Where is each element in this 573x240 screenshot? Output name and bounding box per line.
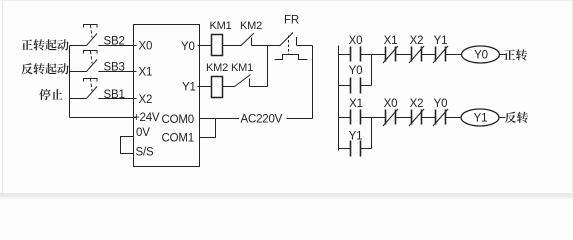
label 停止 (39, 89, 62, 100)
ladder left rail (338, 46, 340, 151)
svg-text:Y0: Y0 (349, 65, 363, 77)
svg-text:S/S: S/S (136, 146, 154, 158)
svg-text:Y1: Y1 (182, 82, 196, 94)
wire (396, 54, 412, 56)
wire (223, 86, 235, 88)
label 正转起动 (21, 39, 68, 50)
wire (422, 54, 436, 56)
contactor coil KM2 (212, 77, 223, 98)
NO contact Y1 (seal-in) (351, 141, 361, 157)
wire branch2 riser (371, 118, 373, 149)
wire (361, 54, 386, 56)
branch2 wire (339, 148, 351, 150)
wire riser row2 to row1 (267, 46, 269, 87)
svg-text:X0: X0 (384, 98, 398, 110)
NC contact Y0 (433, 109, 448, 126)
svg-text:X2: X2 (139, 94, 153, 106)
svg-text:X2: X2 (410, 35, 424, 47)
NC contact KM2 (240, 20, 262, 46)
NC contact X0 (383, 109, 398, 126)
svg-text:0V: 0V (136, 127, 150, 139)
label 反转起动 (21, 63, 68, 74)
svg-text:KM2: KM2 (206, 62, 228, 74)
rung1: wire (339, 54, 351, 56)
page edge shading (decor) (0, 193, 573, 197)
wire FR to right rail (297, 45, 313, 47)
wire Y0 output (198, 45, 212, 47)
svg-text:SB3: SB3 (104, 62, 125, 74)
NC contact X2 (409, 46, 424, 63)
NO contact Y0 (seal-in) (351, 78, 361, 94)
rung2: wire (339, 117, 351, 119)
wire to FR (252, 45, 280, 47)
branch1 wire (339, 85, 351, 87)
wire COM0 to AC line (200, 118, 240, 120)
wire COM1 jumper (200, 119, 216, 138)
svg-text:AC220V: AC220V (241, 113, 283, 125)
svg-text:Y0: Y0 (181, 41, 195, 53)
svg-text:+24V: +24V (133, 112, 160, 124)
svg-text:X1: X1 (384, 35, 398, 47)
svg-text:X1: X1 (139, 66, 153, 78)
svg-text:X0: X0 (139, 40, 153, 52)
svg-text:X1: X1 (349, 98, 363, 110)
svg-text:SB2: SB2 (104, 36, 125, 48)
svg-text:Y1: Y1 (474, 112, 488, 124)
svg-text:COM1: COM1 (162, 132, 194, 144)
NC contact X2 (409, 109, 424, 126)
NC contact KM1 (231, 62, 253, 87)
wire input bus (69, 46, 71, 118)
wire Y1 output (198, 86, 212, 88)
svg-text:KM2: KM2 (240, 20, 262, 32)
svg-text:KM1: KM1 (209, 20, 231, 32)
svg-text:Y0: Y0 (434, 98, 448, 110)
svg-text:X2: X2 (410, 98, 424, 110)
NC contact X1 (383, 46, 398, 63)
NC contact Y1 (433, 46, 448, 63)
svg-text:Y1: Y1 (349, 130, 363, 142)
svg-text:COM0: COM0 (162, 114, 194, 126)
svg-text:X0: X0 (349, 35, 363, 47)
svg-text:Y0: Y0 (474, 49, 488, 61)
pushbutton SB3 (70, 51, 137, 74)
wire branch1 riser (371, 55, 373, 86)
wire row2 to riser (250, 86, 268, 88)
coil Y0 (462, 46, 500, 63)
wire right drop (312, 46, 314, 119)
NO contact X1 (351, 110, 361, 125)
label 正转 (504, 49, 527, 60)
coil Y1 (461, 109, 499, 126)
wire (223, 45, 242, 47)
wire 0V-S/S jumper (121, 137, 134, 154)
pushbutton SB2 (70, 25, 137, 48)
thermal relay contact FR (275, 14, 308, 59)
contactor coil KM1 (212, 35, 223, 56)
svg-text:FR: FR (284, 14, 299, 26)
PLC box U1 (134, 25, 200, 167)
label 反转 (505, 112, 528, 123)
NO contact X0 (351, 47, 361, 62)
svg-text:SB1: SB1 (104, 89, 125, 101)
wire (446, 54, 462, 56)
wire +24V (70, 117, 137, 119)
pushbutton SB1 (70, 79, 137, 102)
svg-text:Y1: Y1 (434, 35, 448, 47)
svg-text:KM1: KM1 (231, 62, 253, 74)
